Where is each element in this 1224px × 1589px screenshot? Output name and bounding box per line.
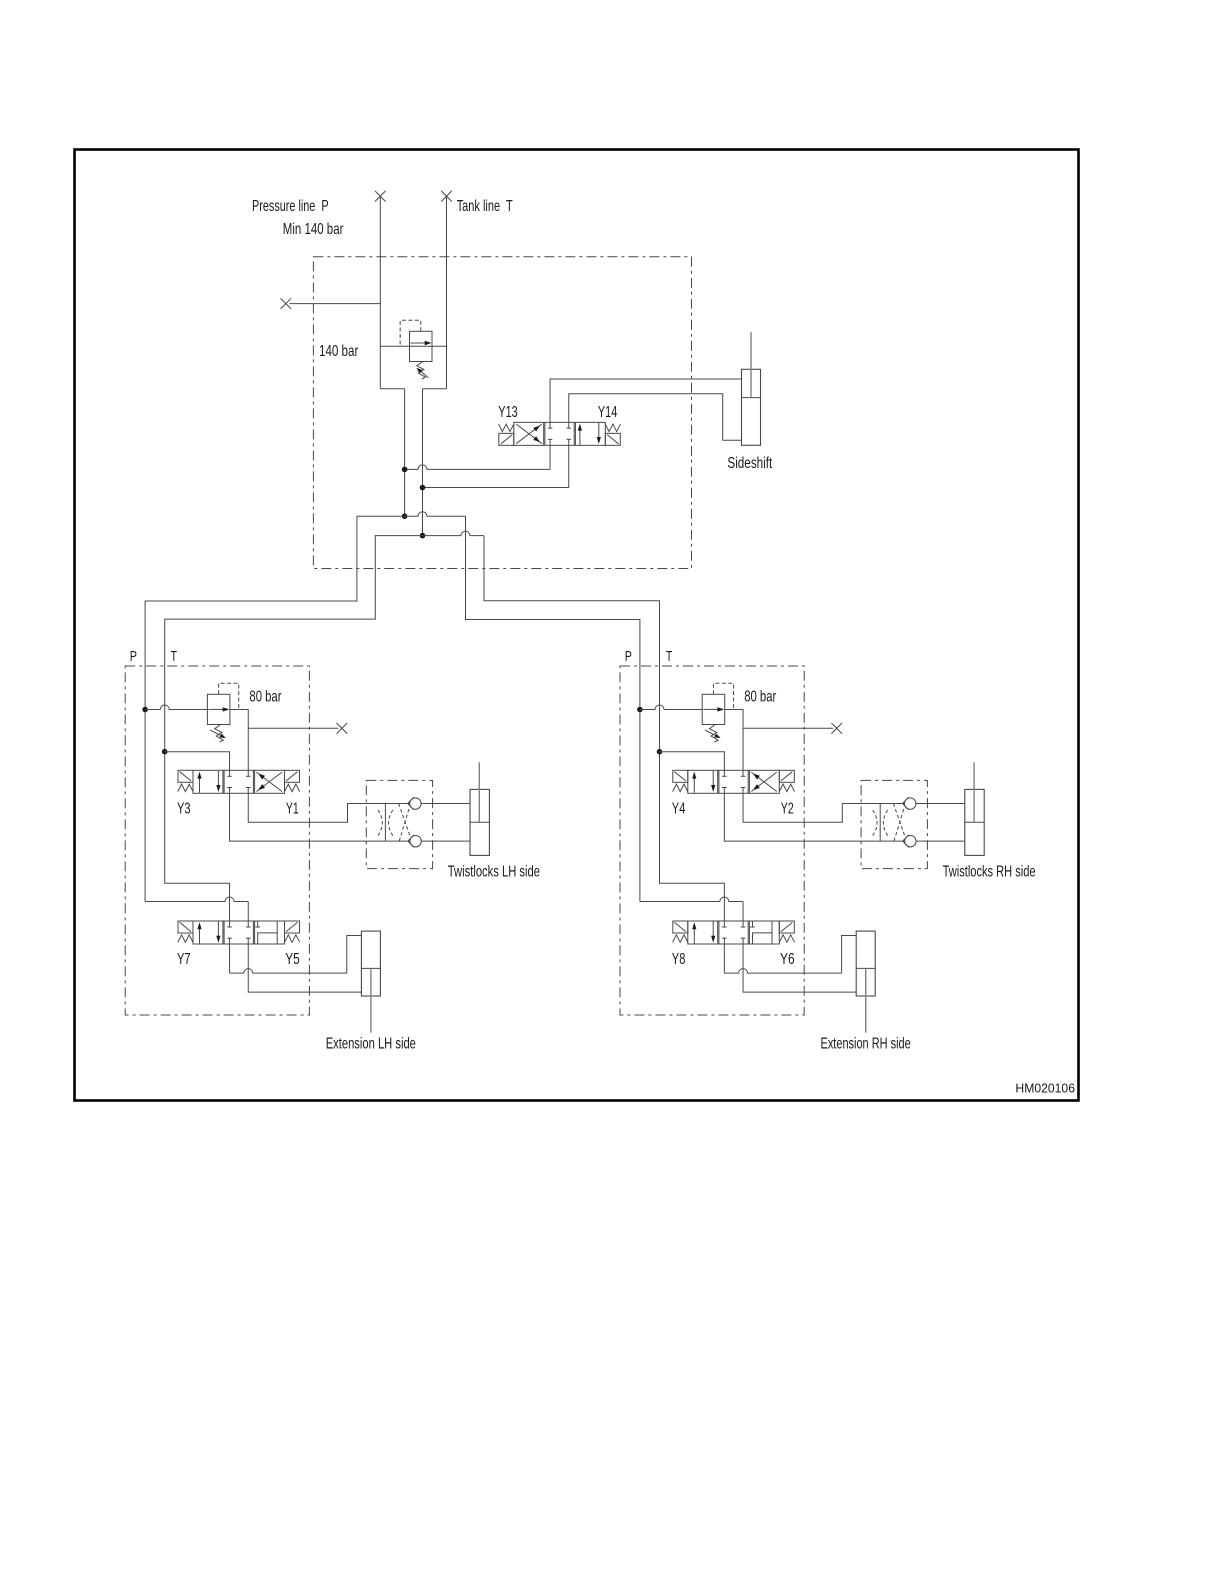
svg-text:Tank line T: Tank line T: [457, 198, 513, 215]
svg-text:T: T: [171, 648, 177, 665]
svg-text:Y5: Y5: [285, 951, 300, 968]
svg-text:Y4: Y4: [672, 800, 686, 817]
svg-text:Y14: Y14: [598, 404, 617, 421]
svg-text:Y6: Y6: [780, 951, 795, 968]
svg-text:Twistlocks LH side: Twistlocks LH side: [448, 863, 540, 880]
svg-text:Y7: Y7: [177, 951, 191, 968]
svg-text:Min 140 bar: Min 140 bar: [283, 221, 344, 238]
svg-text:Y2: Y2: [781, 800, 794, 817]
svg-text:Y8: Y8: [672, 951, 686, 968]
svg-text:Pressure line P: Pressure line P: [252, 198, 329, 215]
svg-text:Twistlocks RH side: Twistlocks RH side: [943, 863, 1036, 880]
svg-text:T: T: [666, 648, 672, 665]
svg-text:80 bar: 80 bar: [249, 688, 282, 705]
svg-text:P: P: [130, 648, 137, 665]
svg-text:Y3: Y3: [177, 800, 191, 817]
svg-text:Y13: Y13: [498, 404, 517, 421]
svg-text:HM020106: HM020106: [1015, 1082, 1075, 1096]
svg-text:Extension LH side: Extension LH side: [326, 1035, 416, 1052]
svg-text:80 bar: 80 bar: [744, 688, 777, 705]
svg-text:Y1: Y1: [286, 800, 299, 817]
svg-text:P: P: [625, 648, 632, 665]
svg-text:Extension RH side: Extension RH side: [821, 1035, 911, 1052]
svg-text:Sideshift: Sideshift: [727, 455, 772, 472]
svg-text:140 bar: 140 bar: [319, 343, 359, 360]
